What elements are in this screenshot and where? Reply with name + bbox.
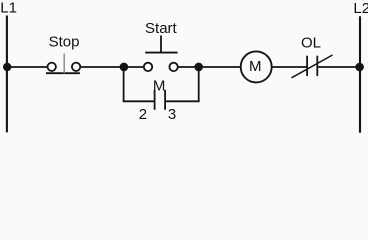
junction node on L2 rail — [355, 63, 364, 72]
coil M — [241, 51, 272, 82]
junction node on L1 rail — [3, 63, 11, 71]
contact M (NO seal-in), pins 2-3 — [155, 90, 166, 110]
pushbutton Stop (NC) — [46, 53, 80, 73]
pushbutton Start (NO) — [144, 36, 178, 72]
overload contact OL — [292, 55, 333, 78]
junction node B (branch right) — [194, 63, 203, 72]
wire: L1 rail to Stop — [7, 66, 48, 68]
svg-text:2: 2 — [139, 106, 147, 123]
right power rail L2 wire — [359, 16, 361, 133]
svg-text:Start: Start — [145, 20, 178, 37]
left power rail L1 wire — [6, 16, 8, 133]
svg-text:OL: OL — [301, 35, 321, 52]
svg-text:Stop: Stop — [49, 33, 80, 50]
wire: Start to coil M — [178, 66, 241, 68]
svg-text:M: M — [153, 77, 166, 94]
wire: coil to OL — [272, 66, 307, 68]
branch wire: bottom left segment — [123, 100, 155, 102]
svg-text:L1: L1 — [0, 0, 17, 17]
branch wire: up to node B — [198, 67, 200, 101]
wire: Stop to Start — [80, 66, 143, 68]
svg-text:L2: L2 — [353, 0, 368, 17]
svg-text:M: M — [249, 58, 262, 75]
branch wire: down from node A — [123, 67, 125, 101]
junction node A (branch left) — [120, 63, 129, 72]
wire: OL to L2 rail — [318, 66, 360, 68]
branch wire: bottom right segment — [165, 100, 200, 102]
svg-text:3: 3 — [168, 106, 176, 123]
